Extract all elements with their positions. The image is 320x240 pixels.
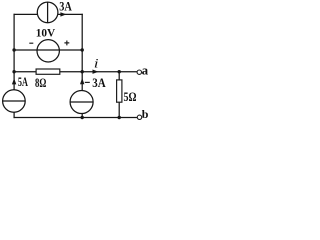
- current arrow 3A top branch: [60, 12, 66, 16]
- voltage source 10V: [37, 40, 59, 62]
- wire middle branch to terminal a: [14, 71, 137, 73]
- svg-text:5Ω: 5Ω: [124, 89, 137, 104]
- svg-text:b: b: [142, 107, 149, 121]
- label 3A bottom: [92, 75, 106, 90]
- current arrow 3A bottom-right rail: [80, 78, 84, 84]
- junction node 5ohm / middle branch: [118, 70, 121, 73]
- svg-text:i: i: [94, 55, 99, 70]
- resistor 5ohm: [117, 80, 122, 102]
- svg-text:10V: 10V: [36, 26, 56, 40]
- terminal b: [137, 115, 141, 119]
- current source 3A bottom-right: [70, 91, 93, 114]
- current source 3A top: [37, 2, 58, 23]
- label a: [142, 62, 149, 77]
- junction node left rail / 10V branch: [12, 48, 15, 51]
- junction node left rail / middle branch: [12, 70, 15, 73]
- current source 5A bottom-left: [3, 90, 26, 113]
- wire right rail: [81, 14, 83, 117]
- svg-text:8Ω: 8Ω: [35, 75, 46, 90]
- wire 10V branch: [14, 49, 82, 51]
- terminal a: [137, 70, 141, 74]
- polarity minus of 10V source: [29, 42, 33, 44]
- label b: [142, 107, 149, 121]
- svg-text:5A: 5A: [18, 74, 28, 89]
- svg-text:3A: 3A: [59, 0, 72, 13]
- label 5ohm: [124, 89, 137, 104]
- svg-text:a: a: [142, 62, 149, 77]
- label 5A: [18, 74, 28, 89]
- polarity plus of 10V source: [64, 41, 69, 46]
- wire bottom branch to terminal b: [14, 117, 137, 119]
- wire 5ohm branch: [118, 72, 120, 118]
- current arrow 5A left rail: [12, 78, 16, 84]
- junction node right rail / middle branch: [81, 70, 84, 73]
- junction node 5ohm / bottom branch: [118, 116, 121, 119]
- label 8ohm: [35, 75, 46, 90]
- junction node right rail / 10V branch: [81, 48, 84, 51]
- wire left rail: [13, 14, 15, 117]
- label 3A top: [59, 0, 72, 13]
- resistor 8ohm: [36, 69, 60, 74]
- svg-text:3A: 3A: [92, 75, 106, 90]
- label 10V: [36, 26, 56, 40]
- junction node right rail / bottom branch: [81, 116, 84, 119]
- current arrow i middle branch: [93, 70, 99, 74]
- label i: [94, 55, 99, 70]
- label minus sign of bottom 3A: [85, 81, 90, 83]
- wire top branch: [14, 13, 82, 15]
